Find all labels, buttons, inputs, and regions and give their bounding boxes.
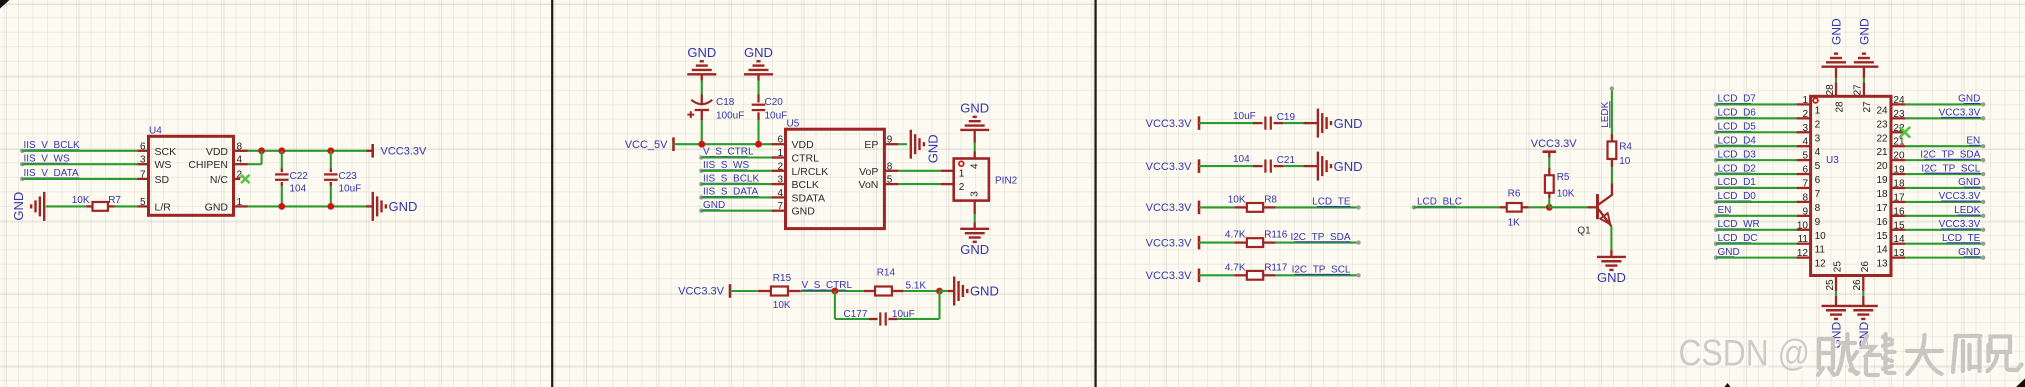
svg-text:LCD_D5: LCD_D5 — [1718, 121, 1757, 132]
svg-text:4.7K: 4.7K — [1225, 230, 1246, 241]
junction R6/R5/base — [1546, 204, 1553, 211]
wire U3 pin 20 to I2C_TP_SDA — [1905, 159, 1983, 161]
svg-text:16: 16 — [1876, 217, 1888, 228]
svg-text:17: 17 — [1876, 203, 1888, 214]
wire base node to Q1 base — [1549, 206, 1587, 208]
wire VoN to PIN2 — [898, 183, 940, 185]
svg-text:18: 18 — [1876, 189, 1888, 200]
svg-text:GND: GND — [1334, 116, 1363, 131]
svg-text:IIS_S_WS: IIS_S_WS — [703, 160, 749, 171]
U3 pin-1 marker circle — [1813, 98, 1818, 103]
wire CHIPEN up to VDD net — [261, 151, 263, 164]
U5 pin 7 (GND) — [771, 210, 785, 212]
svg-text:R6: R6 — [1508, 189, 1521, 200]
wire LCD_BLC to R6 — [1414, 206, 1500, 208]
ground GND above U3 pin 27 — [1849, 65, 1878, 67]
svg-text:LCD_D3: LCD_D3 — [1718, 149, 1757, 160]
corner mark bottom-right — [2016, 379, 2025, 387]
wire LCD_D1 to U3 pin 7 — [1716, 187, 1797, 189]
svg-text:23: 23 — [1893, 109, 1905, 120]
svg-text:21: 21 — [1893, 137, 1905, 148]
U4 pin 4 (CHIPEN) — [234, 163, 248, 165]
svg-text:23: 23 — [1876, 119, 1888, 130]
panel divider 1 — [551, 0, 553, 387]
wire GND to U5 — [701, 210, 771, 212]
svg-text:WS: WS — [155, 159, 172, 171]
wire C20 to VCC_5V net — [757, 120, 759, 144]
wire LCD_WR to U3 pin 10 — [1716, 229, 1797, 231]
capacitor C177 plates — [879, 312, 881, 325]
wire VDD to C23 — [330, 151, 332, 169]
wire IIS_S_DATA to U5 — [701, 196, 771, 198]
svg-text:27: 27 — [1853, 84, 1864, 96]
junction VCC_5V/C20 — [755, 141, 762, 148]
svg-text:LCD_D1: LCD_D1 — [1718, 177, 1757, 188]
svg-text:10uF: 10uF — [765, 110, 788, 121]
svg-text:VCC3.3V: VCC3.3V — [1939, 191, 1981, 202]
U3 pin 24 — [1891, 103, 1905, 105]
resistor R15 body — [771, 287, 788, 296]
U5 pin 1 (CTRL) — [771, 156, 785, 158]
svg-text:C23: C23 — [339, 171, 358, 182]
svg-text:26: 26 — [1860, 261, 1871, 273]
U5 pin 8 (VoP) — [884, 170, 898, 172]
wire C22 to ground net — [281, 186, 283, 206]
svg-text:C22: C22 — [290, 171, 309, 182]
U5 pin 3 (BCLK) — [771, 183, 785, 185]
junction ground/C23 — [327, 203, 334, 210]
ground GND below Q1 — [1597, 256, 1626, 258]
wire R116 to net I2C_TP_SDA — [1276, 242, 1359, 244]
resistor R117 body — [1247, 271, 1263, 280]
wire V_S_CTRL to U5 — [701, 156, 771, 158]
wire U3 pin 17 to VCC3.3V — [1905, 201, 1983, 203]
svg-text:GND: GND — [703, 200, 725, 211]
power bar VCC_5V — [672, 137, 675, 151]
capacitor C21 plates — [1264, 160, 1266, 173]
svg-text:GND: GND — [1334, 159, 1363, 174]
ground GND above PIN2 — [960, 129, 989, 131]
wire LCD_DC to U3 pin 11 — [1716, 243, 1797, 245]
no-connect X on U3 pin 22 — [1899, 127, 1910, 138]
svg-text:5: 5 — [887, 175, 893, 186]
svg-text:21: 21 — [1876, 147, 1888, 158]
svg-text:CSDN @: CSDN @ — [1679, 333, 1811, 374]
svg-text:R7: R7 — [108, 195, 121, 206]
svg-text:104: 104 — [1233, 154, 1250, 165]
ground GND above C18 — [687, 73, 716, 75]
capacitor C177 value 10uF — [869, 318, 878, 320]
svg-text:10K: 10K — [1228, 195, 1246, 206]
PIN2 pin 2 — [941, 183, 954, 185]
svg-text:VCC3.3V: VCC3.3V — [1146, 202, 1193, 214]
svg-text:6: 6 — [140, 141, 146, 152]
svg-text:9: 9 — [1815, 217, 1821, 228]
svg-text:GND: GND — [1718, 247, 1740, 258]
wire EP to ground — [898, 143, 907, 145]
wire pin 28 to top ground — [1835, 78, 1837, 82]
wire U3 pin 14 to LCD_TE — [1905, 243, 1983, 245]
PIN2 pin 4 (top) — [974, 152, 976, 159]
svg-text:1: 1 — [1802, 95, 1808, 106]
svg-text:GND: GND — [970, 284, 999, 299]
power bar VCC3.3V at R15 — [729, 284, 732, 298]
svg-text:CTRL: CTRL — [792, 153, 820, 165]
wire EN to U3 pin 9 — [1716, 215, 1797, 217]
svg-text:9: 9 — [1802, 206, 1808, 217]
wire VoP to PIN2 — [898, 170, 940, 172]
PIN2 pin-1 marker circle — [959, 161, 964, 166]
svg-text:VDD: VDD — [206, 146, 229, 158]
svg-text:10: 10 — [1815, 231, 1827, 242]
svg-text:IIS_S_BCLK: IIS_S_BCLK — [703, 173, 759, 184]
power bar VCC3.3V row R8 — [1198, 201, 1201, 215]
wire VCC3.3V to R116 — [1199, 242, 1234, 244]
U4 pin 7 (SD) — [138, 178, 149, 180]
svg-text:8: 8 — [237, 141, 243, 152]
power bar VCC3.3V row R117 — [1198, 269, 1201, 283]
svg-text:GND: GND — [1830, 18, 1844, 45]
resistor R15 value 10K — [758, 290, 771, 292]
U4 pin 5 (L/R) — [138, 205, 149, 207]
svg-text:4.7K: 4.7K — [1225, 262, 1246, 273]
ground GND below U3 pin 25 — [1822, 305, 1851, 307]
wire LCD_D5 to U3 pin 3 — [1716, 131, 1797, 133]
U3 pin 20 — [1891, 159, 1905, 161]
svg-text:VCC3.3V: VCC3.3V — [1146, 237, 1193, 249]
svg-text:104: 104 — [290, 184, 307, 195]
wire stub to ground flag — [366, 205, 373, 207]
ground GND below U3 pin 26 — [1849, 305, 1878, 307]
U3 pin 17 — [1891, 201, 1905, 203]
wire PIN2 pin4 to ground — [974, 143, 976, 152]
svg-text:10K: 10K — [1557, 188, 1575, 199]
capacitor C19 plates — [1264, 117, 1266, 130]
svg-text:18: 18 — [1893, 178, 1905, 189]
svg-text:GND: GND — [960, 242, 989, 257]
svg-text:VCC3.3V: VCC3.3V — [1146, 118, 1193, 130]
svg-text:4: 4 — [777, 188, 783, 199]
wire R117 to net I2C_TP_SCL — [1276, 274, 1359, 276]
capacitor C23 value 10uF — [330, 168, 332, 172]
svg-text:1: 1 — [237, 197, 243, 208]
power bar VCC3.3V row R116 — [1198, 236, 1201, 250]
wire LCD_D3 to U3 pin 5 — [1716, 159, 1797, 161]
svg-text:28: 28 — [1825, 84, 1836, 96]
svg-text:9: 9 — [887, 135, 893, 146]
junction VDD/CHIPEN — [258, 147, 265, 154]
junction VDD/C22 — [278, 147, 285, 154]
svg-text:Q1: Q1 — [1577, 226, 1591, 237]
wire collector to R4 — [1611, 167, 1613, 183]
power bar VCC3.3V row C21 — [1198, 159, 1201, 173]
wire C18 to VCC_5V net — [701, 120, 703, 144]
svg-text:GND: GND — [1958, 177, 1980, 188]
wire pin 27 to top ground — [1863, 78, 1865, 82]
svg-text:6: 6 — [1815, 175, 1821, 186]
svg-text:8: 8 — [887, 161, 893, 172]
svg-text:100uF: 100uF — [716, 110, 744, 121]
wire U3 pin 24 to GND — [1905, 103, 1983, 105]
IC U5 — [786, 129, 885, 228]
svg-text:VoN: VoN — [859, 179, 879, 191]
svg-text:6: 6 — [777, 135, 783, 146]
svg-text:I2C_TP_SDA: I2C_TP_SDA — [1920, 149, 1980, 160]
U3 pin 27 (top) — [1863, 82, 1865, 96]
svg-text:12: 12 — [1815, 259, 1827, 270]
svg-text:R14: R14 — [877, 268, 896, 279]
U4 pin 2 (N/C) — [234, 178, 241, 180]
svg-text:GND: GND — [1597, 270, 1626, 285]
svg-text:20: 20 — [1876, 161, 1888, 172]
resistor R5 body — [1545, 175, 1554, 193]
capacitor C20 plates — [752, 104, 766, 106]
svg-text:C177: C177 — [844, 309, 868, 320]
svg-text:10: 10 — [1619, 156, 1631, 167]
corner mark top-left — [0, 0, 10, 9]
U4 pin 8 (VDD) — [234, 150, 248, 152]
connector PIN2 — [954, 159, 989, 201]
svg-text:U5: U5 — [787, 119, 800, 130]
svg-text:10uF: 10uF — [339, 184, 362, 195]
svg-text:LCD_TE: LCD_TE — [1312, 197, 1351, 208]
svg-text:VCC3.3V: VCC3.3V — [678, 286, 725, 298]
svg-text:GND: GND — [11, 192, 26, 221]
svg-text:V_S_CTRL: V_S_CTRL — [703, 147, 754, 158]
svg-text:VCC3.3V: VCC3.3V — [1146, 161, 1193, 173]
wire to C177 — [835, 318, 869, 320]
capacitor C18 value 100uF (polarized) — [701, 95, 703, 106]
svg-text:R4: R4 — [1619, 142, 1632, 153]
U3 pin 1 — [1797, 103, 1811, 105]
svg-text:5.1K: 5.1K — [906, 280, 927, 291]
resistor R8 body — [1247, 203, 1263, 212]
svg-text:10uF: 10uF — [1233, 111, 1256, 122]
resistor R14 body — [875, 287, 892, 296]
U3 pin 11 — [1797, 243, 1811, 245]
svg-text:16: 16 — [1893, 206, 1905, 217]
wire VCC3.3V to R8 — [1199, 206, 1234, 208]
svg-text:19: 19 — [1893, 165, 1905, 176]
svg-text:10: 10 — [1797, 220, 1809, 231]
svg-text:14: 14 — [1876, 245, 1888, 256]
svg-text:IIS_V_DATA: IIS_V_DATA — [24, 168, 80, 179]
wire VCC_5V to U5 VDD — [674, 143, 772, 145]
wire VCC3.3V to C19 — [1199, 122, 1253, 124]
svg-text:EP: EP — [864, 139, 878, 151]
wire U3 pin 18 to GND — [1905, 187, 1983, 189]
svg-text:GND: GND — [792, 206, 816, 218]
svg-text:26: 26 — [1852, 279, 1863, 291]
resistor R5 value 10K — [1548, 152, 1550, 158]
wire VDD to C22 — [281, 151, 283, 169]
junction VCC_5V/C18 — [698, 141, 705, 148]
ground GND left of R7 — [43, 192, 45, 221]
U3 pin 6 — [1797, 173, 1811, 175]
wire R8 to net LCD_TE — [1276, 206, 1359, 208]
resistor R7 value 10K — [87, 205, 93, 207]
svg-text:1K: 1K — [1508, 217, 1521, 228]
svg-text:R5: R5 — [1557, 172, 1570, 183]
svg-text:8: 8 — [1802, 192, 1808, 203]
junction V_S_CTRL node — [832, 288, 839, 295]
svg-text:GND: GND — [1858, 18, 1872, 45]
svg-text:VCC3.3V: VCC3.3V — [381, 145, 428, 157]
svg-text:VoP: VoP — [859, 166, 878, 178]
wire pin 25 to bottom ground — [1835, 291, 1837, 295]
svg-text:LCD_TE: LCD_TE — [1942, 233, 1981, 244]
ground GND row C21 — [1317, 152, 1319, 181]
wire ground to R7 — [46, 205, 87, 207]
svg-text:U3: U3 — [1826, 155, 1839, 166]
svg-text:CHIPEN: CHIPEN — [188, 159, 228, 171]
wire GND to C18 — [701, 74, 703, 80]
U3 pin 8 — [1797, 201, 1811, 203]
wire U4 VDD to VCC3.3V — [248, 150, 367, 152]
U5 pin 4 (SDATA) — [771, 196, 785, 198]
svg-text:GND: GND — [744, 45, 773, 60]
resistor R6 value 1K — [1499, 206, 1506, 208]
U3 pin 3 — [1797, 131, 1811, 133]
svg-text:LCD_D0: LCD_D0 — [1718, 191, 1757, 202]
wire IIS_S_WS to U5 — [701, 170, 771, 172]
svg-text:24: 24 — [1876, 105, 1888, 116]
svg-text:5: 5 — [140, 197, 146, 208]
wire VCC3.3V to R5 — [1548, 158, 1550, 169]
svg-text:GND: GND — [1958, 94, 1980, 105]
ground GND above U3 pin 28 — [1822, 65, 1851, 67]
svg-text:SD: SD — [155, 174, 170, 186]
junction R14/C177/ground — [936, 288, 943, 295]
svg-text:22: 22 — [1876, 133, 1888, 144]
svg-text:1: 1 — [1815, 105, 1821, 116]
U3 pin 28 (top) — [1835, 82, 1837, 96]
power bar VCC3.3V panel1 — [371, 144, 374, 158]
U3 pin 14 — [1891, 243, 1905, 245]
U3 pin 10 — [1797, 229, 1811, 231]
svg-text:GND: GND — [925, 134, 940, 163]
transistor Q1 (NPN) — [1587, 206, 1597, 208]
svg-text:17: 17 — [1893, 192, 1905, 203]
wire IIS_V_DATA to U4 — [22, 178, 137, 180]
wire up to R14/ground junction — [938, 291, 940, 319]
svg-text:7: 7 — [1815, 189, 1821, 200]
wire R4 to LEDK — [1611, 88, 1613, 134]
IC U4 — [149, 136, 234, 215]
resistor R4 body — [1608, 141, 1617, 159]
power bar VCC3.3V above R5 — [1543, 150, 1557, 153]
wire LCD_D0 to U3 pin 8 — [1716, 201, 1797, 203]
U5 pin 6 (VDD) — [771, 143, 785, 145]
U3 pin 23 — [1891, 117, 1905, 119]
svg-text:EN: EN — [1718, 205, 1732, 216]
svg-text:VCC3.3V: VCC3.3V — [1939, 108, 1981, 119]
wire U3 pin 23 to VCC3.3V — [1905, 117, 1983, 119]
wire U3 pin 15 to VCC3.3V — [1905, 229, 1983, 231]
wire VCC3.3V to C21 — [1199, 165, 1253, 167]
wire LCD_D2 to U3 pin 6 — [1716, 173, 1797, 175]
svg-text:1: 1 — [777, 148, 783, 159]
svg-text:24: 24 — [1893, 95, 1905, 106]
junction ground/C22 — [278, 203, 285, 210]
svg-text:PIN2: PIN2 — [995, 176, 1018, 187]
U3 pin 16 — [1891, 215, 1905, 217]
svg-text:GND: GND — [389, 199, 418, 214]
wire R7 to U4 pin 5 — [115, 205, 138, 207]
wire R14 to ground node — [904, 290, 940, 292]
resistor R6 body — [1507, 203, 1522, 212]
resistor R116 body — [1247, 238, 1263, 247]
svg-text:VCC3.3V: VCC3.3V — [1146, 270, 1193, 282]
U3 pin 13 — [1891, 256, 1905, 258]
svg-text:R116: R116 — [1264, 230, 1288, 241]
svg-text:6: 6 — [1802, 165, 1808, 176]
wire to ground flag row2 — [1303, 165, 1318, 167]
svg-text:10K: 10K — [773, 300, 791, 311]
wire LCD_D4 to U3 pin 4 — [1716, 145, 1797, 147]
resistor R7 body — [93, 202, 108, 211]
resistor R4 value 10 — [1611, 159, 1613, 167]
svg-text:15: 15 — [1876, 231, 1888, 242]
svg-text:LCD_D7: LCD_D7 — [1718, 94, 1757, 105]
wire U4 CHIPEN — [248, 163, 262, 165]
no-connect X on U4 pin 2 — [241, 175, 249, 183]
wire U3 pin 21 to EN — [1905, 145, 1983, 147]
svg-text:C19: C19 — [1277, 112, 1296, 123]
svg-text:VCC3.3V: VCC3.3V — [1939, 219, 1981, 230]
wire C177 to ground node — [897, 318, 940, 320]
svg-text:4: 4 — [1802, 137, 1808, 148]
svg-text:SDATA: SDATA — [792, 192, 825, 204]
svg-text:I2C_TP_SCL: I2C_TP_SCL — [1921, 163, 1980, 174]
wire IIS_S_BCLK to U5 — [701, 183, 771, 185]
svg-text:5: 5 — [1802, 151, 1808, 162]
svg-text:LCD_D6: LCD_D6 — [1718, 108, 1757, 119]
PIN2 pin 1 — [941, 170, 954, 172]
wire VCC3.3V to R15 — [730, 290, 758, 292]
U3 pin 22 — [1891, 131, 1905, 133]
svg-text:R117: R117 — [1264, 262, 1288, 273]
svg-text:7: 7 — [140, 169, 146, 180]
wire GND to C20 — [757, 74, 759, 80]
wire junction to ground flag — [940, 290, 949, 292]
U3 pin 5 — [1797, 159, 1811, 161]
svg-text:SCK: SCK — [155, 146, 177, 158]
svg-text:20: 20 — [1893, 151, 1905, 162]
corner mark bottom-1 — [1725, 383, 1731, 387]
svg-text:LCD_DC: LCD_DC — [1718, 233, 1758, 244]
capacitor C20 value 10uF — [757, 95, 759, 103]
U5 pin 2 (L/RCLK) — [771, 170, 785, 172]
wire Q1 emitter — [1610, 226, 1612, 235]
U3 pin 19 — [1891, 173, 1905, 175]
svg-text:11: 11 — [1798, 234, 1809, 245]
svg-text:L/R: L/R — [155, 201, 172, 213]
wire U3 pin 13 to GND — [1905, 257, 1983, 259]
wire LCD_D6 to U3 pin 2 — [1716, 117, 1797, 119]
svg-text:GND: GND — [687, 45, 716, 60]
U4 pin 1 (GND) — [234, 205, 248, 207]
svg-text:4: 4 — [237, 155, 243, 166]
ground GND right of R14 — [953, 277, 955, 306]
svg-text:25: 25 — [1833, 261, 1844, 273]
svg-text:GND: GND — [205, 201, 229, 213]
svg-text:GND: GND — [1958, 247, 1980, 258]
svg-text:V_S_CTRL: V_S_CTRL — [802, 280, 853, 291]
svg-text:C20: C20 — [765, 97, 784, 108]
svg-text:3: 3 — [969, 191, 980, 197]
capacitor C23 plates — [324, 173, 338, 175]
